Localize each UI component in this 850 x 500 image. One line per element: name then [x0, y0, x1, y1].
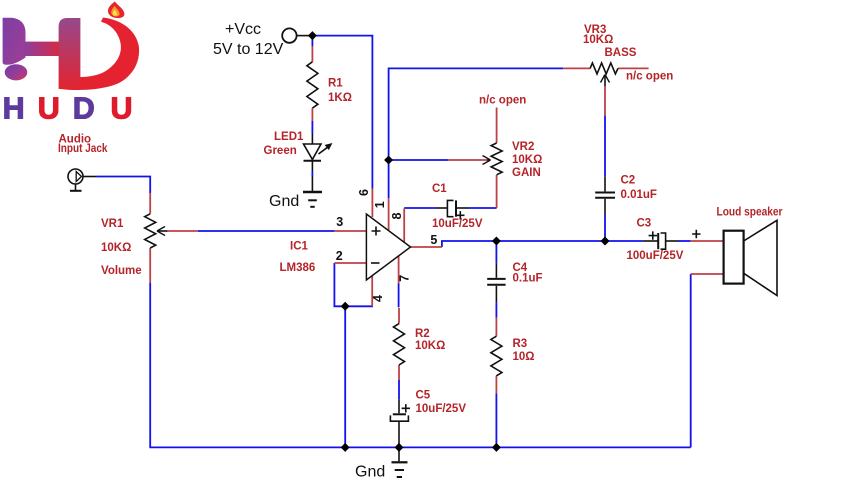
svg-text:U: U: [111, 91, 133, 125]
svg-text:10KΩ: 10KΩ: [101, 242, 131, 254]
svg-text:C1: C1: [432, 183, 447, 195]
svg-text:5: 5: [430, 233, 437, 247]
svg-text:R2: R2: [415, 328, 430, 340]
svg-text:10KΩ: 10KΩ: [512, 154, 542, 166]
svg-text:R3: R3: [513, 338, 528, 350]
svg-text:n/c open: n/c open: [479, 95, 526, 107]
svg-text:1: 1: [373, 201, 387, 208]
svg-text:5V to 12V: 5V to 12V: [213, 41, 284, 58]
svg-text:0.01uF: 0.01uF: [621, 189, 657, 201]
svg-text:6: 6: [357, 189, 371, 196]
svg-text:2: 2: [336, 249, 343, 263]
svg-text:BASS: BASS: [605, 47, 637, 59]
svg-text:+Vcc: +Vcc: [225, 21, 261, 38]
svg-text:4: 4: [371, 295, 385, 302]
svg-text:3: 3: [336, 215, 343, 229]
svg-text:10KΩ: 10KΩ: [415, 340, 445, 352]
svg-text:n/c open: n/c open: [626, 71, 673, 83]
svg-text:U: U: [38, 91, 60, 125]
svg-text:Gnd: Gnd: [269, 193, 299, 210]
svg-text:C5: C5: [416, 390, 431, 402]
svg-text:VR1: VR1: [101, 218, 124, 230]
svg-text:100uF/25V: 100uF/25V: [627, 250, 684, 262]
svg-text:10uF/25V: 10uF/25V: [416, 403, 467, 415]
svg-text:C2: C2: [621, 175, 636, 187]
svg-text:Volume: Volume: [101, 265, 142, 277]
svg-text:D: D: [73, 91, 95, 125]
svg-text:GAIN: GAIN: [512, 167, 541, 179]
svg-text:LED1: LED1: [274, 131, 304, 143]
svg-text:0.1uF: 0.1uF: [513, 273, 543, 285]
svg-text:10KΩ: 10KΩ: [583, 34, 613, 46]
svg-text:R1: R1: [328, 78, 343, 90]
svg-text:Green: Green: [264, 145, 297, 157]
svg-text:8: 8: [390, 213, 404, 220]
svg-text:VR2: VR2: [512, 141, 534, 153]
svg-text:10Ω: 10Ω: [513, 351, 535, 363]
svg-text:10uF/25V: 10uF/25V: [432, 218, 483, 230]
svg-text:Loud speaker: Loud speaker: [717, 207, 783, 219]
svg-text:1KΩ: 1KΩ: [328, 92, 352, 104]
svg-text:IC1: IC1: [290, 241, 309, 253]
svg-text:H: H: [3, 91, 25, 125]
svg-text:Input Jack: Input Jack: [58, 143, 108, 155]
svg-text:LM386: LM386: [280, 262, 316, 274]
svg-text:7: 7: [398, 275, 412, 282]
svg-text:Gnd: Gnd: [355, 464, 385, 481]
svg-text:C3: C3: [637, 218, 652, 230]
